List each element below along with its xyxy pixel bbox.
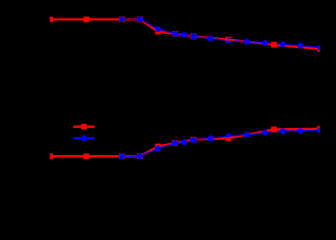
blue series markers (top curve) <box>119 16 324 50</box>
legend red sample <box>74 124 95 130</box>
red series markers (top curve) <box>47 17 323 52</box>
blue series line (top curve) <box>122 19 320 47</box>
red overlay square (bottom curve, x=274) <box>271 127 277 133</box>
red series markers (bottom curve) <box>47 126 323 159</box>
legend blue sample <box>74 135 95 141</box>
red series line (bottom curve) <box>50 129 320 157</box>
red overlay segment (top curve, around x=228.5) <box>224 39 235 40</box>
blue series markers (bottom curve) <box>119 127 324 159</box>
red series line (top curve) <box>50 19 320 49</box>
red overlay segment (bottom curve, around x=228.5) <box>224 137 235 138</box>
blue series line (bottom curve) <box>122 130 320 156</box>
red overlay square (top curve, x=274) <box>271 42 277 48</box>
